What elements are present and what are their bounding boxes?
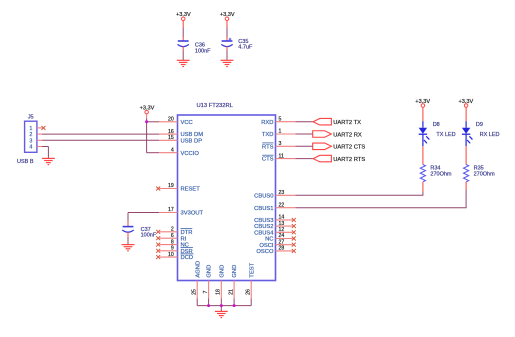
wire D8 anode (422, 107, 424, 121)
power +3.3V (D9) (459, 99, 474, 107)
svg-text:OSCI: OSCI (259, 243, 274, 249)
pin 16 USB DM (U13 left) (159, 129, 203, 138)
wire RXD to flag (296, 121, 314, 123)
svg-text:RTS: RTS (262, 144, 274, 150)
pin 26 TEST (U13 bottom) (246, 262, 256, 305)
svg-text:CBUS3: CBUS3 (254, 218, 273, 224)
svg-text:RXD: RXD (261, 120, 273, 126)
svg-text:NC: NC (265, 237, 273, 243)
pin 28 OSCO (U13 right, no connect) (256, 246, 295, 255)
power +3.3V (C35) (220, 12, 235, 20)
svg-text:OSCO: OSCO (256, 249, 274, 255)
svg-text:21: 21 (229, 289, 235, 295)
svg-text:7: 7 (203, 290, 209, 293)
wire D9 anode (465, 107, 467, 121)
port flag UART2 CTS (313, 143, 366, 151)
LED D9 (462, 121, 500, 146)
svg-text:4.7uF: 4.7uF (238, 45, 253, 51)
svg-text:D8: D8 (433, 122, 440, 128)
pin 19 RESET (U13 left) (156, 183, 200, 192)
pin 4 VCCIO (U13 left) (159, 147, 199, 156)
svg-text:RX LED: RX LED (480, 132, 500, 138)
pin 22 CBUS1 (U13 right) (254, 202, 295, 211)
ground (C37) (122, 245, 135, 251)
pin 8 NC (U13 left) (156, 239, 189, 248)
svg-text:DCD: DCD (181, 255, 194, 261)
svg-text:13: 13 (279, 221, 285, 227)
power +3.3V (U13 rail) (140, 105, 155, 113)
pin 6 RI (U13 left) (156, 233, 186, 242)
svg-text:25: 25 (192, 289, 198, 295)
port flag UART2 RX (313, 131, 362, 139)
svg-text:17: 17 (168, 207, 174, 213)
svg-text:270Ohm: 270Ohm (474, 171, 496, 177)
svg-text:10: 10 (168, 252, 174, 258)
svg-text:100nF: 100nF (195, 48, 211, 54)
svg-text:19: 19 (168, 183, 174, 189)
pin 9 DSR (U13 left) (156, 246, 193, 255)
svg-text:AGND: AGND (195, 261, 201, 278)
pin 7 GND (U13 bottom) (203, 265, 213, 306)
svg-text:UART2 RTS: UART2 RTS (333, 157, 365, 163)
svg-text:+3.3V: +3.3V (459, 99, 474, 105)
pin 18 GND (U13 bottom) (216, 265, 226, 306)
svg-text:GND: GND (232, 265, 238, 278)
junction (GND pin 7) (207, 304, 210, 307)
svg-text:11: 11 (279, 153, 284, 159)
capacitor C35 (polarized, + mark) (221, 38, 253, 51)
wire VCC (147, 121, 159, 123)
junction (VCC tap) (145, 120, 148, 123)
svg-text:22: 22 (279, 202, 285, 208)
pin 5 RXD (U13 right) (261, 116, 295, 125)
svg-text:1: 1 (279, 129, 282, 135)
svg-text:CBUS2: CBUS2 (254, 224, 273, 230)
svg-text:1: 1 (29, 126, 32, 132)
wire +3.3V vertical rail (146, 114, 148, 153)
junction (GND pin 21) (233, 304, 236, 307)
svg-text:+3.3V: +3.3V (176, 12, 191, 18)
pin 11 CTS (U13 right) (262, 153, 296, 162)
op-amp-style IC box U13 FT232RL (178, 103, 276, 281)
ground (USB) (42, 158, 55, 164)
svg-text:GND: GND (207, 265, 213, 278)
svg-text:270Ohm: 270Ohm (430, 171, 452, 177)
svg-text:3: 3 (29, 138, 32, 144)
svg-text:28: 28 (279, 246, 285, 252)
svg-text:18: 18 (216, 289, 222, 295)
svg-text:+3.3V: +3.3V (140, 105, 155, 111)
wire 3V3OUT to C37 (128, 213, 159, 227)
wire C35 top (226, 21, 228, 41)
ground (C36) (177, 60, 190, 66)
wire CTS to flag (296, 158, 314, 160)
svg-text:100nF: 100nF (141, 232, 157, 238)
pin J5-3 stub (37, 139, 42, 141)
pin 12 CBUS4 (U13 right, no connect) (254, 227, 296, 236)
pin 2 DTR (U13 left) (156, 227, 192, 236)
pin 25 AGND (U13 bottom) (192, 261, 202, 306)
port flag UART2 TX (313, 118, 361, 126)
port flag UART2 RTS (313, 155, 365, 163)
svg-text:20: 20 (168, 117, 174, 123)
svg-text:UART2 RX: UART2 RX (333, 132, 362, 138)
svg-text:TXD: TXD (262, 132, 274, 138)
pin 1 TXD (U13 right) (262, 129, 296, 138)
wire C35 bottom (226, 46, 228, 60)
svg-text:12: 12 (279, 227, 285, 233)
svg-text:4: 4 (171, 147, 174, 153)
resistor R35 (464, 165, 496, 182)
wire CBUS0 to R34 (296, 192, 423, 196)
wire R34 bottom (422, 182, 424, 192)
pin 15 USB DP (U13 left) (159, 135, 202, 144)
svg-text:GND: GND (219, 265, 225, 278)
svg-text:VCCIO: VCCIO (181, 151, 200, 157)
svg-text:RI: RI (181, 236, 187, 242)
pin 13 CBUS2 (U13 right, no connect) (254, 221, 296, 230)
svg-text:5: 5 (279, 116, 282, 122)
svg-text:RESET: RESET (181, 187, 201, 193)
svg-text:15: 15 (168, 135, 174, 141)
wire R35 bottom (465, 182, 467, 190)
svg-text:3: 3 (279, 141, 282, 147)
svg-text:CBUS1: CBUS1 (254, 206, 273, 212)
wire D9 cathode to R35 (465, 146, 467, 164)
svg-text:+3.3V: +3.3V (415, 99, 430, 105)
svg-text:J5: J5 (28, 114, 34, 120)
wire C36 top (182, 21, 184, 41)
svg-text:USB DM: USB DM (181, 132, 204, 138)
wire VCCIO (147, 152, 159, 154)
svg-text:CTS: CTS (262, 157, 274, 163)
svg-text:TEST: TEST (249, 262, 255, 277)
wire C36 bottom (182, 46, 184, 60)
svg-text:14: 14 (279, 215, 285, 221)
svg-text:CBUS4: CBUS4 (254, 230, 274, 236)
pin 20 VCC (U13 left) (159, 117, 193, 126)
wire RTS to flag (296, 145, 314, 147)
svg-text:6: 6 (171, 233, 174, 239)
ground (U13 bottom) (215, 311, 228, 317)
wire CBUS1 to R35 (296, 190, 467, 208)
svg-text:3V3OUT: 3V3OUT (181, 211, 204, 217)
svg-text:16: 16 (168, 129, 174, 135)
svg-text:24: 24 (279, 233, 285, 239)
capacitor C36 (178, 41, 212, 54)
wire USB DP (J5-3 to U13) (42, 139, 159, 141)
svg-text:D9: D9 (476, 122, 483, 128)
svg-text:2: 2 (29, 132, 32, 138)
LED D8 (419, 121, 456, 146)
pin 23 CBUS0 (U13 right) (254, 190, 295, 199)
svg-text:VCC: VCC (181, 120, 193, 126)
svg-text:CBUS0: CBUS0 (254, 193, 273, 199)
svg-text:U13 FT232RL: U13 FT232RL (197, 103, 234, 109)
power +3.3V (D8) (415, 99, 430, 107)
svg-text:DTR: DTR (181, 230, 193, 236)
svg-text:+3.3V: +3.3V (220, 12, 235, 18)
svg-text:9: 9 (171, 246, 174, 252)
svg-text:USB DP: USB DP (181, 138, 203, 144)
pin 27 OSCI (U13 right, no connect) (259, 239, 295, 248)
pin 10 DCD (U13 left) (156, 252, 193, 261)
no-connect X (J5 pin 1) (42, 126, 46, 130)
svg-text:27: 27 (279, 239, 285, 245)
pin J5-1 stub (no connect) (37, 127, 43, 129)
power +3.3V (C36) (176, 12, 191, 20)
pin 14 CBUS3 (U13 right, no connect) (254, 215, 296, 224)
svg-text:TX LED: TX LED (436, 132, 455, 138)
svg-text:4: 4 (29, 145, 32, 151)
pin J5-4 stub (37, 146, 42, 148)
pin 17 3V3OUT (U13 left) (159, 207, 204, 216)
wire TXD to flag (296, 133, 314, 135)
pin 21 GND (U13 bottom) (229, 265, 239, 306)
svg-text:23: 23 (279, 190, 285, 196)
wire USB shield to ground (42, 147, 48, 159)
wire USB DM (J5-2 to U13) (42, 133, 159, 135)
resistor R34 (420, 165, 452, 182)
junction (GND pin 18) (220, 304, 223, 307)
svg-text:UART2 CTS: UART2 CTS (333, 145, 365, 151)
pin 24 NC (U13 right, no connect) (265, 233, 296, 242)
pin 3 RTS (U13 right) (262, 141, 296, 150)
svg-text:2: 2 (171, 227, 174, 233)
svg-text:UART2 TX: UART2 TX (333, 120, 361, 126)
pin J5-2 stub (37, 133, 42, 135)
wire ground bus (U13 bottom) (197, 306, 251, 312)
wire D8 cathode to R34 (422, 146, 424, 164)
svg-text:USB B: USB B (17, 159, 34, 165)
capacitor C37 (122, 227, 157, 239)
connector J5 USB B (17, 114, 37, 165)
svg-text:26: 26 (246, 289, 252, 295)
svg-text:8: 8 (171, 239, 174, 245)
wire C37 bottom (127, 232, 129, 245)
ground (C35) (221, 60, 234, 66)
